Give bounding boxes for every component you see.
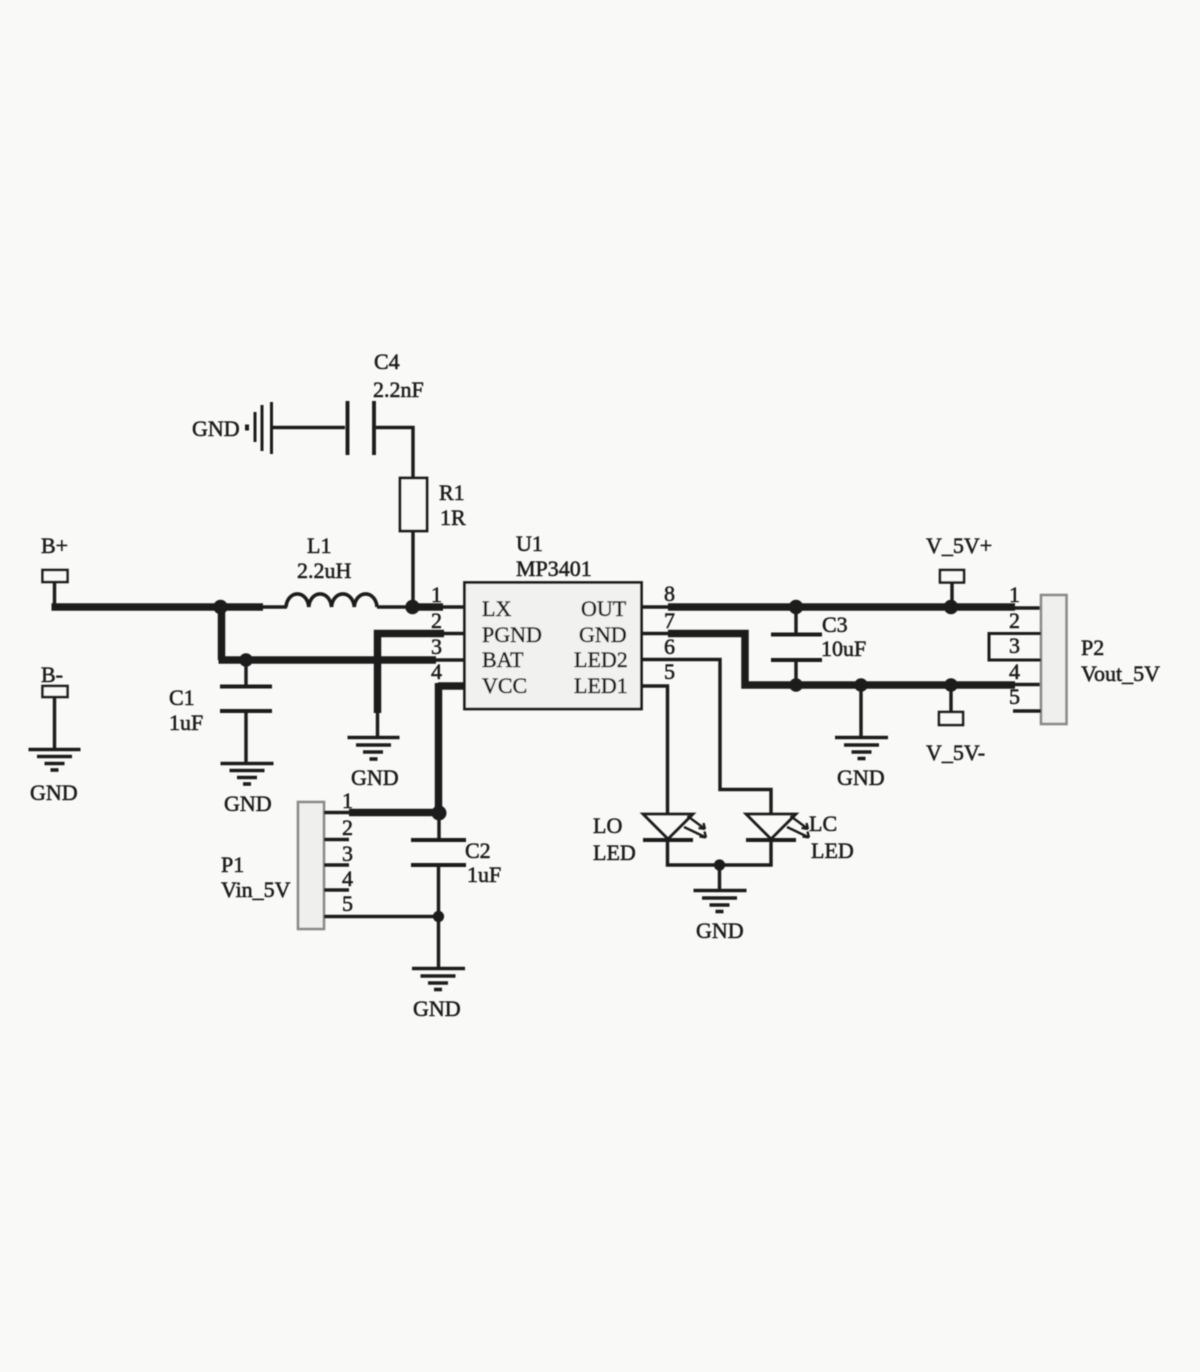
wire PGND thin tail: [376, 711, 379, 737]
ground GND (output): [835, 738, 888, 759]
wire P2 pins 2-3 loop: [989, 634, 1041, 661]
wire C3 top: [794, 607, 797, 633]
svg-text:4: 4: [342, 866, 353, 891]
wire BAT vertical from B+ junction: [218, 604, 226, 660]
svg-text:10uF: 10uF: [821, 636, 866, 661]
wire LED ground down: [718, 865, 721, 890]
ground GND (under C2): [412, 969, 465, 990]
svg-text:GND: GND: [837, 765, 885, 790]
wire P1 pin2 stub: [324, 838, 349, 841]
svg-text:5: 5: [664, 659, 675, 684]
wire GND to C4 left plate: [273, 426, 345, 429]
wire P1 pin5 to C2 bottom: [324, 915, 438, 918]
svg-text:1: 1: [342, 788, 353, 813]
svg-text:LED2: LED2: [574, 647, 628, 672]
svg-text:GND: GND: [30, 780, 78, 805]
wire ground tap down: [859, 685, 862, 737]
node junction OUT/V_5V+: [944, 600, 958, 614]
capacitor C2: [411, 840, 466, 865]
svg-text:1uF: 1uF: [169, 710, 203, 735]
node junction B+/L1/BAT: [213, 600, 227, 614]
svg-text:C2: C2: [465, 838, 491, 863]
svg-text:GND: GND: [192, 416, 240, 441]
wire PGND net thick: [378, 634, 445, 714]
led LC: [746, 814, 809, 840]
svg-text:GND: GND: [224, 791, 272, 816]
node junction LED ground: [714, 859, 725, 870]
node junction GND net ground tap: [854, 678, 868, 692]
ground GND (under C1): [221, 764, 274, 785]
svg-text:2: 2: [342, 815, 353, 840]
wire BAT pin stub thin: [436, 658, 465, 661]
svg-text:GND: GND: [351, 765, 399, 790]
ground GND (under B-): [29, 750, 81, 771]
svg-text:1R: 1R: [440, 505, 466, 530]
svg-text:Vout_5V: Vout_5V: [1081, 661, 1160, 686]
svg-text:P2: P2: [1081, 635, 1104, 660]
wire LX pin stub thin: [443, 605, 465, 608]
led LO: [643, 814, 706, 840]
svg-text:3: 3: [1009, 633, 1020, 658]
wire P2 pin5 stub: [1013, 709, 1041, 712]
svg-text:LC: LC: [809, 811, 837, 836]
svg-text:2.2uH: 2.2uH: [297, 558, 352, 583]
terminal B+: [43, 570, 68, 582]
wire OUT to P2 pin1 thin: [1013, 606, 1041, 609]
svg-text:6: 6: [664, 634, 675, 659]
svg-text:2: 2: [431, 608, 442, 633]
capacitor C4: [348, 401, 375, 455]
wire V_5V+ down: [950, 583, 953, 605]
svg-text:5: 5: [342, 891, 353, 916]
ic U1 MP3401 body: [465, 583, 642, 710]
node junction VCC/P1/C2: [432, 806, 447, 821]
svg-text:5: 5: [1009, 684, 1020, 709]
capacitor C3: [771, 635, 822, 661]
svg-text:V_5V+: V_5V+: [926, 533, 992, 558]
inductor L1: [286, 594, 377, 607]
wire R1 bottom to LX node: [411, 531, 414, 607]
wire P1 pin1 thick to VCC: [349, 809, 440, 817]
svg-text:L1: L1: [307, 533, 331, 558]
svg-text:B-: B-: [41, 662, 63, 687]
wire GND net thick: [668, 634, 1015, 686]
svg-text:8: 8: [664, 581, 675, 606]
svg-text:3: 3: [431, 634, 442, 659]
svg-text:1: 1: [1009, 582, 1020, 607]
resistor R1: [400, 478, 427, 531]
svg-text:P1: P1: [221, 852, 244, 877]
wire P1 pin3 stub: [324, 863, 349, 866]
wire VCC vertical thick: [435, 683, 443, 813]
wire B+ main thick: [52, 603, 264, 611]
wire P1 pin4 stub: [324, 888, 349, 892]
node junction BAT/C1: [239, 653, 253, 667]
svg-text:LED: LED: [593, 840, 636, 865]
wire inductor to LX node: [377, 605, 406, 608]
wire B+ down: [53, 582, 56, 604]
svg-text:LX: LX: [482, 596, 511, 621]
node junction GND/V_5V-: [944, 678, 958, 692]
svg-text:4: 4: [431, 659, 442, 684]
wire to ground (C2): [437, 917, 440, 969]
connector P1 body: [298, 802, 324, 929]
svg-text:C1: C1: [169, 685, 195, 710]
ground GND (top-left, rotated earth symbol): [247, 402, 272, 454]
wire C2 top: [437, 813, 440, 839]
wire V_5V- up: [949, 685, 952, 712]
wire C3 bottom: [794, 660, 797, 685]
ground GND (LEDs): [694, 891, 747, 912]
svg-text:V_5V-: V_5V-: [926, 740, 985, 765]
svg-text:2.2nF: 2.2nF: [373, 377, 424, 402]
terminal V_5V+: [940, 570, 964, 583]
svg-text:LED1: LED1: [574, 673, 628, 698]
svg-text:GND: GND: [696, 918, 744, 943]
wire GND pin stub thin: [641, 632, 672, 635]
wire LED cathodes join: [668, 840, 772, 865]
svg-text:BAT: BAT: [482, 647, 524, 672]
svg-text:PGND: PGND: [482, 622, 542, 647]
wire VCC pin stub thick: [438, 682, 465, 690]
svg-text:7: 7: [664, 608, 675, 633]
capacitor C1: [220, 687, 272, 712]
wire LED1 pin down: [641, 686, 668, 814]
svg-text:Vin_5V: Vin_5V: [221, 877, 291, 902]
svg-text:U1: U1: [516, 531, 543, 556]
svg-text:R1: R1: [439, 480, 465, 505]
terminal V_5V-: [939, 712, 963, 725]
svg-text:OUT: OUT: [581, 596, 627, 621]
wire C1 top: [244, 662, 247, 685]
terminal B-: [43, 686, 68, 697]
wire C2 bottom: [437, 865, 440, 917]
svg-text:LED: LED: [811, 838, 854, 863]
svg-text:B+: B+: [41, 533, 68, 558]
wire OUT net thick: [668, 603, 1015, 611]
node junction GND/C3: [789, 678, 803, 692]
wire junction to inductor: [261, 605, 287, 608]
svg-text:1uF: 1uF: [467, 862, 501, 887]
svg-text:2: 2: [1009, 608, 1020, 633]
node junction C2/P1 pin5: [433, 911, 444, 922]
node junction OUT/C3: [789, 600, 803, 614]
svg-text:C4: C4: [374, 349, 400, 374]
svg-text:VCC: VCC: [482, 673, 527, 698]
svg-text:3: 3: [342, 841, 353, 866]
connector P2 body: [1041, 595, 1067, 724]
svg-text:GND: GND: [579, 622, 627, 647]
wire GND to P2 pin4 thin: [1013, 683, 1041, 686]
svg-text:LO: LO: [593, 813, 622, 838]
svg-text:C3: C3: [822, 612, 848, 637]
wire OUT pin stub thin: [641, 605, 672, 608]
wire LED2 pin down: [641, 660, 771, 815]
node junction LX/R1: [405, 600, 419, 614]
wire PGND pin stub thin: [443, 632, 465, 635]
wire LX pin stub thick: [412, 603, 443, 611]
svg-text:MP3401: MP3401: [516, 556, 592, 581]
wire C1 bottom to ground: [244, 711, 247, 763]
wire P1 pin1 stub thin: [324, 811, 352, 814]
wire BAT net thick: [219, 656, 437, 664]
svg-text:1: 1: [431, 582, 442, 607]
svg-text:GND: GND: [413, 996, 461, 1021]
wire C4 right plate to R1 top: [376, 428, 413, 479]
wire B- to ground: [53, 697, 56, 749]
svg-text:4: 4: [1009, 659, 1020, 684]
ground GND (PGND): [348, 738, 400, 760]
